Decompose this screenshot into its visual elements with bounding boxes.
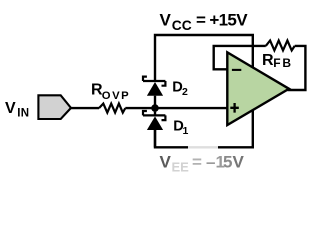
svg-text:1: 1 [183,125,189,137]
svg-text:IN: IN [17,108,29,120]
svg-text:V: V [233,152,245,171]
wire node A to op-amp plus input [125,107,227,109]
label VEE = -15V (faded by watermark) [160,152,245,174]
svg-text:CC: CC [172,18,192,33]
svg-text:V: V [160,11,172,30]
op-amp minus input symbol [232,69,241,71]
wire input to ROVP [71,107,99,109]
label VCC = +15V [160,11,249,33]
input terminal VIN [38,95,71,119]
svg-text:=: = [192,152,202,171]
op-amp U1 [227,52,289,125]
resistor ROVP [99,104,125,113]
svg-text:R: R [262,52,274,69]
diode D1 (schottky, cathode at node A, anode to VEE) [143,111,165,147]
label D2 [172,79,188,98]
op-amp plus input symbol [230,103,239,113]
svg-text:V: V [5,100,16,117]
label VIN [5,100,30,120]
diode D2 (schottky, anode at node A, cathode to VCC) [143,77,165,105]
label RFB [262,52,293,70]
feedback wire right side to output [288,46,306,90]
svg-text:2: 2 [182,86,188,98]
label ROVP [91,81,130,102]
svg-text:V: V [160,152,172,171]
power rail VCC wire [155,35,253,82]
svg-text:OVP: OVP [102,90,130,102]
svg-text:= +15V: = +15V [196,11,248,30]
resistor RFB [266,41,295,51]
power rail VEE wire [155,110,253,147]
feedback wire from minus input [214,46,266,69]
svg-text:5: 5 [223,152,232,171]
svg-text:EE: EE [172,160,190,175]
node A junction dot [151,104,159,112]
svg-text:FB: FB [273,56,293,70]
label D1 [173,119,188,138]
